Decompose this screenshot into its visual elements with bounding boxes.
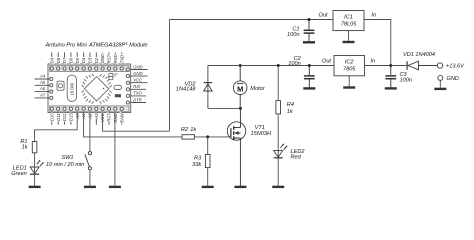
svg-text:R2: R2 — [181, 127, 189, 133]
svg-text:D6: D6 — [69, 57, 74, 63]
wire R1 to LED1 — [34, 153, 36, 167]
svg-text:RAW: RAW — [119, 112, 124, 123]
svg-text:VCC: VCC — [133, 78, 143, 83]
svg-text:ATMEGA328P® Module: ATMEGA328P® Module — [88, 42, 148, 48]
wire stubs A4-A7 — [35, 79, 50, 98]
svg-text:D8: D8 — [56, 57, 61, 63]
wire GND terminal to ground — [439, 80, 441, 87]
svg-text:GND: GND — [447, 76, 459, 82]
svg-text:Red: Red — [291, 155, 302, 161]
wire R3 to ground — [207, 168, 209, 186]
R2 value label — [181, 127, 197, 133]
diode VD1 1N4004 — [407, 61, 437, 70]
svg-text:Out: Out — [318, 12, 327, 18]
svg-text:GND: GND — [133, 64, 142, 69]
svg-text:D12: D12 — [62, 113, 67, 121]
svg-text:TXD: TXD — [119, 55, 124, 63]
+13,6V label — [446, 64, 465, 70]
module top pin holes — [50, 67, 123, 70]
wire junction to R3 — [207, 137, 209, 155]
node motor top junction — [239, 64, 242, 67]
R4 value label — [287, 102, 294, 115]
wire LED2 to ground — [277, 158, 279, 186]
svg-text:SW1: SW1 — [61, 155, 73, 161]
svg-text:A3: A3 — [94, 113, 99, 120]
svg-text:D4: D4 — [81, 57, 86, 63]
ground under LED2 — [272, 186, 284, 188]
node junction R2/R3 — [206, 135, 209, 138]
wire IC1 gnd pin — [348, 31, 350, 41]
svg-text:Out: Out — [322, 58, 331, 64]
ground under VT1 source — [234, 186, 246, 188]
small dark part inside module — [115, 94, 121, 97]
wire A0 to R1 — [35, 112, 78, 141]
wire 12V/motor rail — [208, 65, 334, 67]
diode VD2 1N4148 flyback — [204, 66, 212, 109]
ground under GND pin — [109, 186, 121, 188]
IC U2 7805 — [322, 56, 375, 76]
svg-text:A5: A5 — [39, 80, 46, 85]
svg-text:M: M — [237, 84, 243, 93]
R3 value label — [192, 155, 202, 168]
svg-text:16 000: 16 000 — [70, 82, 75, 95]
svg-text:GND: GND — [133, 71, 142, 76]
wire A1 to R2 — [84, 112, 182, 136]
resistor R4 — [276, 101, 281, 114]
svg-text:D5: D5 — [75, 57, 80, 63]
left pin labels A4-A7 — [39, 74, 46, 98]
LED D2 LED2 red — [274, 144, 288, 158]
terminal GND — [438, 75, 443, 80]
svg-text:A4: A4 — [39, 74, 46, 79]
terminal +13,6V — [437, 63, 442, 68]
wire R4 to LED2 — [277, 114, 279, 151]
transistor VT1 15N03H MOSFET — [227, 108, 245, 185]
wire 5V vertical drop — [169, 20, 171, 132]
svg-text:A7: A7 — [39, 93, 46, 98]
module left pin holes A4-A7 — [50, 77, 53, 99]
ground under LED1 — [29, 186, 41, 188]
wire A2 to SW1 — [89, 112, 91, 151]
svg-text:D2: D2 — [94, 57, 99, 63]
svg-text:RXD: RXD — [113, 54, 118, 63]
wire IC1 In to vertical — [364, 20, 391, 66]
svg-text:33k: 33k — [192, 162, 202, 168]
R1 value label — [20, 139, 28, 150]
wire IC2 gnd pin — [348, 76, 350, 87]
wire 5V top rail — [170, 19, 334, 21]
wire node to VD1 — [391, 65, 407, 67]
right pin stub wires — [131, 70, 148, 103]
svg-text:D9: D9 — [49, 57, 54, 63]
svg-text:D7: D7 — [62, 57, 67, 63]
wire VCC feed — [103, 112, 170, 131]
svg-text:IC1: IC1 — [344, 14, 353, 20]
C1 label — [287, 26, 299, 38]
module right pin holes — [126, 68, 129, 104]
svg-text:VD1 1N4004: VD1 1N4004 — [403, 52, 435, 58]
wire motor loop bottom rail — [208, 107, 241, 109]
top pin stub wires — [52, 52, 122, 64]
svg-text:+13,6V: +13,6V — [446, 64, 465, 70]
ground under R3 — [202, 186, 214, 188]
svg-text:10 min / 20 min: 10 min / 20 min — [46, 162, 84, 168]
resistor R2 — [182, 135, 195, 139]
reset button inside module — [57, 81, 64, 90]
MCU chip (rotated QFP) inside module — [82, 74, 112, 104]
LED D1 LED1 green — [30, 160, 43, 174]
svg-text:D13: D13 — [69, 113, 74, 121]
svg-text:R3: R3 — [194, 155, 202, 161]
module bottom pin holes — [50, 107, 123, 110]
small parts top-right inside module — [109, 73, 118, 79]
node R4 top junction — [277, 64, 280, 67]
node C1 junction — [308, 18, 311, 21]
svg-text:1N4148: 1N4148 — [176, 87, 196, 93]
svg-text:Green: Green — [11, 171, 27, 177]
module title label — [45, 42, 148, 48]
small capsule part inside module — [114, 85, 122, 89]
wire SW1 to ground — [89, 170, 91, 186]
svg-text:GND: GND — [113, 113, 118, 122]
svg-text:100n: 100n — [400, 78, 412, 84]
capacitor C3 100n — [385, 66, 396, 88]
capacitor C1 100n — [304, 20, 315, 42]
svg-text:RST: RST — [107, 54, 112, 63]
svg-text:15N03H: 15N03H — [251, 131, 272, 137]
svg-text:Motor: Motor — [250, 86, 265, 92]
node C3 junction — [389, 64, 392, 67]
svg-text:D3: D3 — [88, 57, 93, 63]
svg-text:RST: RST — [107, 113, 112, 122]
node drain/motor junction — [239, 107, 242, 110]
ground under GND terminal — [434, 88, 446, 90]
IC U1 78L05 — [318, 11, 376, 31]
svg-text:DTR: DTR — [133, 97, 142, 102]
crystal 16 000 inside module — [67, 75, 76, 101]
VD2 label — [176, 82, 196, 93]
svg-text:In: In — [372, 12, 377, 18]
ground under C1 — [303, 41, 315, 43]
svg-text:IC2: IC2 — [345, 59, 355, 65]
wire GND pin to ground — [114, 112, 116, 185]
svg-text:D10: D10 — [49, 113, 54, 121]
svg-text:GND: GND — [100, 54, 105, 63]
motor M1 — [233, 66, 247, 109]
wire IC2 In to node — [365, 65, 391, 67]
svg-text:RXI: RXI — [133, 84, 141, 89]
svg-text:100n: 100n — [288, 61, 300, 67]
svg-text:78L05: 78L05 — [341, 22, 357, 28]
module U1 Arduino Pro Mini outline — [48, 64, 131, 113]
resistor R1 — [32, 142, 37, 153]
ground under SW1 — [84, 186, 96, 188]
wire LED1 to ground — [34, 174, 36, 186]
top pin labels D9..TXD — [49, 54, 124, 63]
svg-text:R4: R4 — [287, 102, 294, 108]
C2 label — [288, 56, 301, 67]
C3 label — [400, 72, 412, 84]
ground under C3 — [385, 87, 397, 89]
switch SW1 — [85, 152, 92, 170]
VD1 label — [403, 52, 435, 58]
ground under IC2 — [343, 86, 355, 88]
svg-text:Arduino Pro Mini: Arduino Pro Mini — [45, 42, 88, 48]
ground under C2 — [303, 87, 315, 89]
capacitor C2 100n — [304, 66, 315, 88]
svg-text:100n: 100n — [287, 32, 299, 38]
svg-text:In: In — [371, 58, 376, 64]
bottom pin labels D10..RAW — [49, 112, 124, 123]
LED1 label — [11, 166, 27, 177]
svg-text:D11: D11 — [56, 113, 61, 120]
SW1 label — [46, 155, 84, 168]
VT1 label — [251, 125, 272, 137]
GND terminal label — [447, 76, 459, 82]
svg-text:A6: A6 — [39, 86, 46, 91]
right pin labels — [133, 64, 143, 102]
ground under IC1 — [343, 41, 355, 43]
LED2 label — [291, 149, 306, 160]
resistor R3 — [205, 154, 210, 167]
Motor label — [250, 86, 265, 92]
bottom pin stub wires — [52, 113, 122, 125]
svg-text:7805: 7805 — [343, 67, 356, 73]
wire R2 to gate — [195, 136, 231, 138]
node C2 junction — [308, 64, 311, 67]
wire rail to R4 — [277, 66, 279, 101]
svg-text:TXO: TXO — [133, 91, 142, 96]
